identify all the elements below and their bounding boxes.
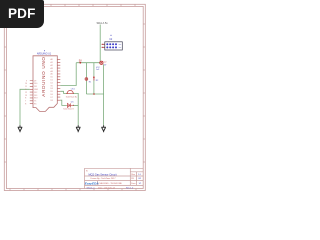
title block (sheet furniture, unlabeled) bbox=[85, 168, 144, 188]
svg-text:Rev 1.0: Rev 1.0 bbox=[126, 187, 134, 189]
svg-text:A4: A4 bbox=[51, 70, 53, 73]
ground (sensor) bbox=[101, 125, 106, 132]
svg-text:D7: D7 bbox=[51, 97, 53, 99]
svg-text:1/1: 1/1 bbox=[139, 183, 143, 185]
junction on sensor rail bbox=[93, 93, 95, 95]
svg-text:D2: D2 bbox=[51, 82, 53, 84]
svg-text:D9: D9 bbox=[34, 80, 36, 82]
wire: sensor rail down to ground bbox=[103, 64, 105, 125]
svg-text:5V: 5V bbox=[104, 65, 107, 67]
svg-text:ARDUINO U1: ARDUINO U1 bbox=[37, 52, 52, 55]
Arduino U1 bbox=[33, 50, 57, 111]
svg-text:A3: A3 bbox=[51, 67, 53, 70]
svg-text:EasyEDA: EasyEDA bbox=[85, 181, 100, 185]
junction node VCC bbox=[96, 61, 107, 71]
svg-text:D10: D10 bbox=[34, 83, 37, 85]
svg-text:A5: A5 bbox=[51, 73, 53, 76]
svg-text:11: 11 bbox=[25, 86, 27, 88]
wire: Arduino pin to buzzer B1 bbox=[60, 91, 67, 93]
svg-text:A0: A0 bbox=[51, 58, 53, 61]
wire: sensor bottom rail bbox=[86, 93, 103, 95]
svg-text:GND: GND bbox=[34, 89, 39, 91]
svg-text:1uF: 1uF bbox=[96, 69, 100, 71]
svg-text:5V: 5V bbox=[79, 58, 82, 62]
svg-text:R2: R2 bbox=[96, 80, 99, 82]
svg-text:D5: D5 bbox=[51, 91, 53, 93]
svg-text:T: T bbox=[25, 101, 27, 103]
svg-text:12: 12 bbox=[25, 92, 27, 94]
ground (buzzer) bbox=[76, 125, 81, 132]
svg-text:Date : 2017-05-14: Date : 2017-05-14 bbox=[98, 186, 116, 189]
svg-text:D0: D0 bbox=[51, 77, 53, 79]
svg-text:Solid State B: Solid State B bbox=[63, 108, 74, 111]
net flag 5V bbox=[79, 58, 82, 63]
svg-text:R: R bbox=[25, 98, 27, 100]
svg-text:A1: A1 bbox=[51, 61, 53, 64]
svg-text:D1: D1 bbox=[71, 101, 75, 103]
resistor R2 bbox=[93, 76, 99, 82]
svg-text:D1: D1 bbox=[51, 80, 53, 82]
resistor R1 bbox=[85, 77, 92, 83]
svg-text:R5: R5 bbox=[131, 178, 135, 180]
svg-text:Dwn: Dwn bbox=[131, 183, 136, 185]
svg-text:13: 13 bbox=[25, 95, 27, 97]
wire: net label down to junction (past display pins) bbox=[99, 25, 101, 62]
buzzer B1 bbox=[66, 89, 77, 99]
wire: sensor leg B bbox=[93, 63, 95, 94]
svg-text:MQ2 Gas Sensor Circuit: MQ2 Gas Sensor Circuit bbox=[88, 172, 116, 176]
svg-text:9: 9 bbox=[26, 80, 27, 82]
svg-text:D8: D8 bbox=[51, 100, 53, 102]
svg-text:SDA A 5v: SDA A 5v bbox=[97, 21, 109, 25]
svg-text:D11: D11 bbox=[34, 86, 37, 88]
sheet frame (decorative) drawn first, unlabeled bbox=[4, 4, 145, 190]
wire: Arduino right pin up to 5V rail bbox=[60, 63, 76, 86]
svg-text:D6: D6 bbox=[51, 94, 53, 96]
Arduino U1 left pins bbox=[25, 80, 39, 105]
wire: buzzer to ground rail bbox=[73, 93, 78, 125]
svg-text:N: N bbox=[86, 170, 88, 172]
wire: sensor leg A bbox=[85, 63, 87, 94]
wire: Arduino pin to LED D1 bbox=[60, 100, 67, 105]
svg-text:10: 10 bbox=[25, 83, 27, 85]
svg-text:D13: D13 bbox=[34, 95, 37, 97]
wire: 5V rail bbox=[76, 62, 100, 64]
svg-text:ARDUINO UNO: ARDUINO UNO bbox=[41, 56, 46, 96]
svg-text:Drawn By : TechZone 2017: Drawn By : TechZone 2017 bbox=[91, 177, 117, 180]
svg-text:R1: R1 bbox=[89, 81, 92, 83]
svg-text:A2: A2 bbox=[51, 64, 53, 67]
Arduino U1 right pins bbox=[51, 58, 61, 102]
svg-text:D4: D4 bbox=[51, 88, 53, 90]
svg-text:CHECKED : TECHZONE: CHECKED : TECHZONE bbox=[99, 183, 123, 185]
svg-text:B2: B2 bbox=[139, 178, 142, 180]
ground (left) bbox=[18, 125, 23, 132]
svg-text:Solid State Bu: Solid State Bu bbox=[66, 95, 77, 98]
LED D1 bbox=[63, 101, 74, 110]
wire: Arduino left pin to left ground bbox=[20, 89, 30, 125]
svg-text:Sheet_1: Sheet_1 bbox=[87, 186, 96, 189]
svg-text:C2: C2 bbox=[104, 62, 107, 64]
svg-text:R: R bbox=[25, 104, 27, 106]
svg-text:U2: U2 bbox=[109, 38, 113, 41]
svg-text:D12: D12 bbox=[34, 92, 37, 94]
wire: LED to ground rail bbox=[73, 104, 78, 106]
LCD module U2 bbox=[102, 35, 123, 50]
